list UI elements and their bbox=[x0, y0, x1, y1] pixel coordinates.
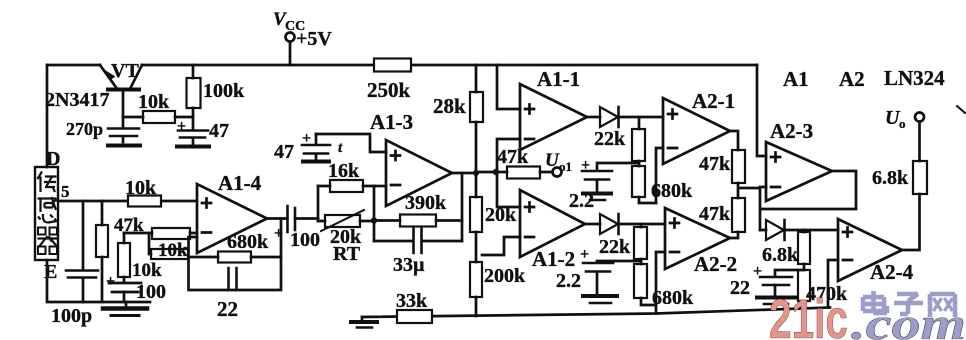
mark top-right tick bbox=[957, 106, 965, 113]
wire A2-2 - input down to rail bbox=[656, 252, 665, 314]
watermark dian (电) bbox=[863, 291, 887, 313]
wire top rail left segment bbox=[47, 64, 100, 67]
capacitor 22 (A1-4 feedback) bbox=[229, 268, 237, 290]
wire stack2 drop bbox=[640, 224, 643, 227]
node dot A1-3 inverting bbox=[371, 217, 377, 223]
svg-text:22k: 22k bbox=[594, 128, 626, 150]
svg-text:47k: 47k bbox=[699, 153, 731, 175]
wire 10k gain row bbox=[149, 233, 151, 254]
svg-text:VT: VT bbox=[111, 60, 139, 82]
svg-text:10k: 10k bbox=[158, 240, 188, 261]
svg-text:A2-1: A2-1 bbox=[692, 89, 735, 113]
wire A1-3 + input from cap 47 bbox=[316, 134, 386, 152]
transistor VT 2N3417 bbox=[100, 65, 117, 88]
resistor 6.8k (filter) bbox=[803, 230, 806, 232]
svg-text:6.8k: 6.8k bbox=[762, 244, 799, 266]
sensor text chuan (传) bbox=[38, 172, 57, 193]
wire 47k row to A1-4 - input bbox=[124, 232, 197, 235]
op-amp U A2-2 bbox=[665, 208, 730, 269]
svg-text:5: 5 bbox=[61, 182, 70, 201]
resistor RT 20k (thermistor) bbox=[318, 220, 374, 223]
svg-text:2N3417: 2N3417 bbox=[45, 89, 109, 111]
wire top rail main segment bbox=[142, 64, 757, 67]
ground (under 2.2 branch 1) bbox=[583, 192, 611, 196]
resistor 33k (on bottom rail) bbox=[397, 310, 432, 323]
diode D2 bbox=[600, 214, 618, 234]
wire A1-3 - input bbox=[374, 185, 386, 188]
ground (under 2.2 branch 2) bbox=[583, 294, 617, 298]
svg-text:6.8k: 6.8k bbox=[872, 167, 909, 189]
svg-text:o: o bbox=[899, 116, 906, 131]
resistor 10k (vertical, to cap 100) bbox=[118, 243, 130, 277]
svg-text:+: + bbox=[581, 157, 590, 174]
resistor 680k (branch 2) bbox=[641, 259, 656, 305]
wire A2-1 - input bbox=[656, 148, 663, 203]
ground (bottom-left) bbox=[103, 306, 147, 311]
watermark zi (子) bbox=[894, 294, 923, 314]
svg-text:+: + bbox=[274, 225, 283, 242]
wire bottom rail bbox=[362, 308, 830, 318]
svg-text:10k: 10k bbox=[132, 260, 162, 281]
feedback loop of A1-4 bbox=[189, 219, 282, 291]
svg-text:47k: 47k bbox=[114, 215, 144, 236]
svg-text:A2-4: A2-4 bbox=[870, 260, 914, 284]
svg-text:16k: 16k bbox=[328, 160, 360, 182]
capacitor 100p bbox=[66, 269, 98, 272]
svg-text:28k: 28k bbox=[433, 94, 466, 118]
wire base node row bbox=[123, 116, 193, 119]
svg-text:2.2: 2.2 bbox=[556, 270, 581, 292]
resistor 390k (feedback) bbox=[374, 219, 462, 222]
wire A1-4 output bbox=[267, 217, 286, 220]
resistor 47k (upper, A2 summing) bbox=[732, 150, 745, 183]
ground (under cap 47) bbox=[177, 145, 209, 149]
wire 100p drop bbox=[82, 201, 85, 302]
svg-text:A1-4: A1-4 bbox=[218, 171, 262, 195]
svg-text:20k: 20k bbox=[485, 204, 517, 226]
watermark wang (网) bbox=[930, 294, 955, 317]
svg-text:22: 22 bbox=[217, 297, 238, 321]
capacitor 47 (A1-3 +, electrolytic) bbox=[315, 134, 318, 144]
op-amp U A2-1 bbox=[663, 98, 730, 164]
wire sensor E down to bottom-left ground wire bbox=[47, 260, 150, 302]
svg-text:2.2: 2.2 bbox=[569, 190, 594, 212]
svg-text:LN324: LN324 bbox=[884, 66, 945, 90]
svg-text:A2-3: A2-3 bbox=[770, 119, 813, 143]
resistor 22k (branch 2) bbox=[634, 227, 647, 259]
op-amp U A2-3 bbox=[766, 142, 832, 201]
capacitor 22 (electrolytic, A2-4) bbox=[760, 276, 792, 279]
sensor text qi (器) bbox=[38, 228, 58, 255]
resistor 10k (base) bbox=[143, 111, 175, 123]
wire sensor pin 5 row to A1-4 + input bbox=[58, 200, 197, 203]
svg-text:22k: 22k bbox=[599, 236, 631, 258]
svg-text:+5V: +5V bbox=[296, 28, 332, 50]
resistor (sensor load, vertical) bbox=[101, 201, 104, 302]
op-amp U A1-3 bbox=[386, 140, 452, 206]
node dot A1-3 output junction bbox=[473, 170, 479, 176]
svg-text:+: + bbox=[753, 263, 762, 280]
svg-text:47k: 47k bbox=[699, 203, 731, 225]
resistor 6.8k (output) bbox=[913, 161, 927, 194]
svg-text:47k: 47k bbox=[497, 146, 529, 168]
svg-text:33k: 33k bbox=[396, 290, 428, 312]
svg-text:A1-3: A1-3 bbox=[370, 110, 413, 134]
svg-text:A1-2: A1-2 bbox=[532, 247, 575, 271]
svg-text:A2: A2 bbox=[839, 67, 865, 91]
capacitor C 270p bbox=[122, 117, 125, 127]
resistor 20k (divider) bbox=[470, 197, 482, 232]
wire 22 cap branch bbox=[775, 264, 804, 276]
svg-text:33µ: 33µ bbox=[393, 254, 425, 276]
capacitor 2.2 (branch 2, electrolytic) bbox=[583, 262, 613, 265]
op-amp U A1-2 bbox=[520, 190, 585, 257]
wire A1-2 - input to divider bbox=[482, 237, 520, 255]
wire window row to Uo1 bbox=[476, 171, 552, 174]
svg-text:680k: 680k bbox=[651, 180, 693, 202]
wire diode row to A2-4 bbox=[760, 229, 838, 232]
wire A2-1 output down bbox=[730, 131, 738, 150]
diode D3 bbox=[766, 220, 784, 240]
resistor 200k (divider) bbox=[470, 262, 482, 297]
svg-text:10k: 10k bbox=[125, 177, 157, 199]
svg-text:E: E bbox=[44, 261, 57, 283]
capacitor 100 (electrolytic) bbox=[123, 277, 126, 282]
capacitor 33u (feedback) bbox=[374, 240, 462, 243]
wire A2-4 output to 6.8k bbox=[902, 194, 920, 250]
node: junction 16k/20k left bbox=[317, 186, 320, 221]
svg-text:A2-2: A2-2 bbox=[694, 252, 737, 276]
svg-text:U: U bbox=[545, 150, 560, 171]
node dot window row bbox=[493, 169, 499, 175]
svg-text:47: 47 bbox=[209, 120, 229, 142]
sensor box (chuangangqi) bbox=[35, 167, 58, 260]
terminal Uo circle bbox=[915, 113, 924, 122]
Vcc terminal circle and stub bbox=[286, 33, 295, 42]
svg-text:270p: 270p bbox=[66, 119, 103, 139]
resistor 680k (branch 1) bbox=[639, 161, 656, 203]
svg-text:+: + bbox=[106, 273, 115, 290]
wire 2.2 cap branch 2 bbox=[597, 261, 641, 262]
divider chain vertical bbox=[475, 65, 478, 316]
resistor 100k bbox=[192, 65, 195, 117]
op-amp U A2-4 bbox=[838, 219, 902, 281]
sensor text gan (感) bbox=[38, 197, 58, 223]
svg-text:+: + bbox=[302, 130, 311, 147]
svg-text:10k: 10k bbox=[138, 91, 170, 113]
svg-text:D: D bbox=[46, 148, 60, 170]
resistor 470k bbox=[798, 270, 810, 301]
wire A1-3 output bbox=[452, 172, 476, 175]
svg-text:680k: 680k bbox=[652, 287, 694, 309]
wire A1-1 + input from rail bbox=[497, 65, 520, 109]
svg-text:100p: 100p bbox=[51, 305, 92, 327]
capacitor 100 (series, output of A1-4) bbox=[286, 206, 289, 232]
wire 6.8k to Uo terminal bbox=[918, 122, 921, 161]
wire A1-1 output bbox=[587, 116, 600, 119]
ground (under cap 47 at A1-3) bbox=[303, 160, 329, 164]
resistor 16k bbox=[318, 185, 374, 188]
svg-text:100: 100 bbox=[136, 281, 166, 303]
wire down to 10k vertical bbox=[123, 233, 126, 243]
resistor 28k bbox=[470, 92, 483, 122]
svg-text:47: 47 bbox=[274, 141, 294, 163]
svg-text:o1: o1 bbox=[559, 159, 572, 174]
resistor 10k (sensor row) bbox=[128, 196, 161, 207]
ground (under cap 270p) bbox=[108, 144, 140, 148]
resistor 250k (on rail) bbox=[374, 59, 411, 72]
ground (under cap 22) bbox=[757, 296, 795, 300]
wire stack1 drop bbox=[638, 117, 641, 129]
op-amp U A1-1 bbox=[520, 84, 587, 150]
svg-text:22: 22 bbox=[730, 277, 750, 299]
ground (left of 33k) bbox=[361, 317, 364, 321]
svg-text:390k: 390k bbox=[405, 192, 447, 214]
capacitor 47 (emitter bypass, electrolytic) bbox=[192, 117, 195, 129]
capacitor 2.2 (branch 1, electrolytic) bbox=[582, 170, 612, 173]
resistor 680k (A1-4 feedback) bbox=[189, 256, 282, 259]
resistor 47k (to Uo1) bbox=[507, 167, 540, 179]
wire A2-3 follower feedback loop bbox=[760, 171, 856, 230]
terminal Uo1 circle bbox=[553, 168, 562, 177]
svg-text:RT: RT bbox=[333, 243, 361, 265]
svg-text:t: t bbox=[338, 140, 343, 156]
resistor 22k (branch 1) bbox=[632, 129, 645, 161]
svg-text:+: + bbox=[580, 246, 589, 263]
svg-text:100: 100 bbox=[290, 229, 320, 251]
svg-text:200k: 200k bbox=[484, 265, 526, 287]
op-amp U A1-4 bbox=[197, 184, 267, 253]
wire 2.2 cap branch 1 bbox=[597, 163, 639, 170]
wire A1-1 - / A1-2 + vertical bbox=[497, 139, 520, 207]
wire A2-4 - input to rail bbox=[828, 260, 838, 308]
wire 47k midpoint to A2-3 - bbox=[738, 183, 760, 198]
svg-text:+: + bbox=[177, 118, 186, 135]
wire A2-3 + input from rail bbox=[757, 65, 766, 156]
svg-text:680k: 680k bbox=[227, 231, 269, 253]
svg-text:21ic: 21ic bbox=[769, 287, 848, 340]
diode D1 bbox=[600, 107, 618, 127]
resistor 47k (lower, A2 summing) bbox=[732, 198, 745, 232]
svg-text:A1: A1 bbox=[783, 67, 809, 91]
resistor 10k (gain row) bbox=[151, 249, 188, 259]
resistor 47k bbox=[152, 228, 190, 239]
svg-text:100k: 100k bbox=[203, 80, 245, 102]
svg-text:A1-1: A1-1 bbox=[537, 67, 580, 91]
svg-text:250k: 250k bbox=[367, 78, 411, 102]
wire left vertical from rail to sensor D bbox=[46, 65, 49, 167]
wire A1-2 output bbox=[585, 223, 600, 226]
